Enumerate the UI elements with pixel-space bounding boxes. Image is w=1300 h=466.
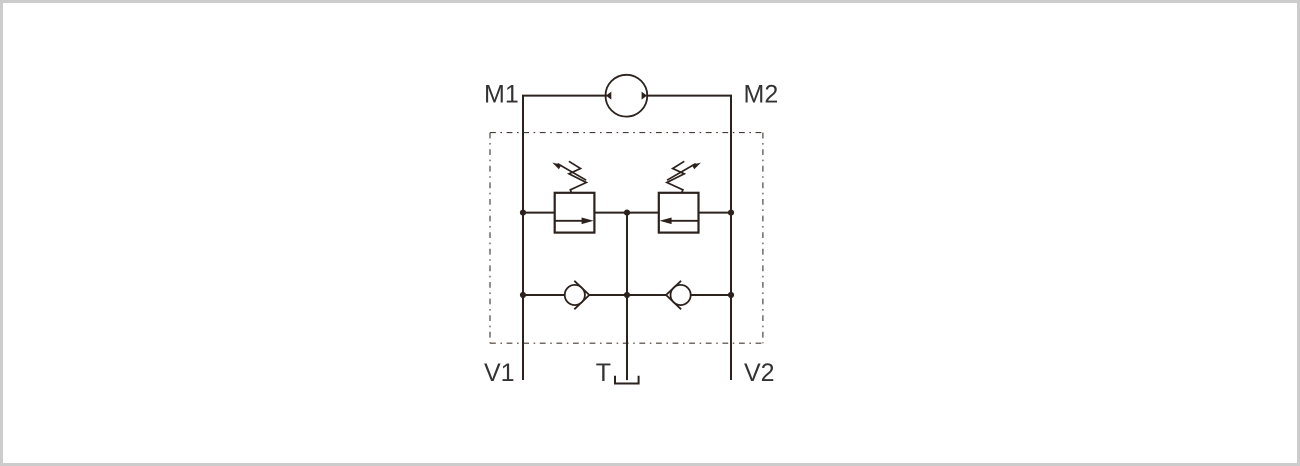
motor right port arrow: [642, 92, 647, 100]
wire: top horizontal left segment to motor: [522, 95, 607, 97]
relief valve RV2 body: [659, 193, 699, 233]
wire: center vertical to tank T: [626, 213, 628, 381]
relief valve RV2 adjustment arrow shaft: [667, 164, 696, 181]
wire: check line middle segment: [589, 294, 666, 296]
junction node left-check: [520, 292, 526, 298]
valve enclosure dash-dot boundary bottom edge: [490, 342, 763, 344]
relief valve RV1 adjustment arrowhead: [552, 163, 561, 170]
junction node right-check: [728, 292, 734, 298]
svg-text:V2: V2: [744, 359, 775, 387]
relief valve RV1 flow arrow: [555, 220, 585, 222]
check valve CV2 ball circle: [671, 285, 691, 305]
wire: relief line right segment: [699, 212, 732, 214]
svg-text:M2: M2: [744, 81, 779, 109]
wire: check line left segment: [523, 294, 565, 296]
junction node left-relief: [520, 210, 526, 216]
wire: top horizontal right segment from motor: [646, 95, 732, 97]
junction node right-relief: [728, 210, 734, 216]
wire: check line right segment: [691, 294, 731, 296]
wire: relief line middle segment: [594, 212, 658, 214]
valve enclosure dash-dot boundary left edge: [489, 133, 491, 344]
motor left port arrow: [606, 92, 611, 100]
svg-text:V1: V1: [484, 359, 515, 387]
relief valve RV2 spring: [667, 161, 684, 193]
relief valve RV1 adjustment arrow shaft: [558, 164, 587, 181]
check valve CV1 ball circle: [565, 285, 585, 305]
relief valve RV2 flow arrow: [668, 220, 698, 222]
svg-text:M1: M1: [484, 81, 519, 109]
junction node mid-check: [624, 292, 630, 298]
relief valve RV1 spring: [569, 161, 586, 193]
relief valve RV2 adjustment arrowhead: [692, 163, 701, 170]
relief valve RV1 body: [555, 193, 595, 233]
relief valve RV2 flow arrowhead: [660, 218, 672, 225]
junction node mid-relief: [624, 210, 630, 216]
wire: relief line left segment: [523, 212, 555, 214]
valve enclosure dash-dot boundary top edge: [490, 132, 763, 134]
wire: left vertical M1-V1 line: [522, 96, 524, 380]
hydraulic motor circle: [606, 75, 648, 117]
check valve CV1 seat: [574, 281, 589, 310]
tank symbol at port T: [615, 376, 639, 384]
valve enclosure dash-dot boundary right edge: [762, 133, 764, 344]
svg-text:T: T: [596, 359, 611, 387]
check valve CV2 seat: [666, 281, 681, 310]
relief valve RV1 flow arrowhead: [582, 218, 594, 225]
wire: right vertical M2-V2 line: [730, 96, 732, 380]
